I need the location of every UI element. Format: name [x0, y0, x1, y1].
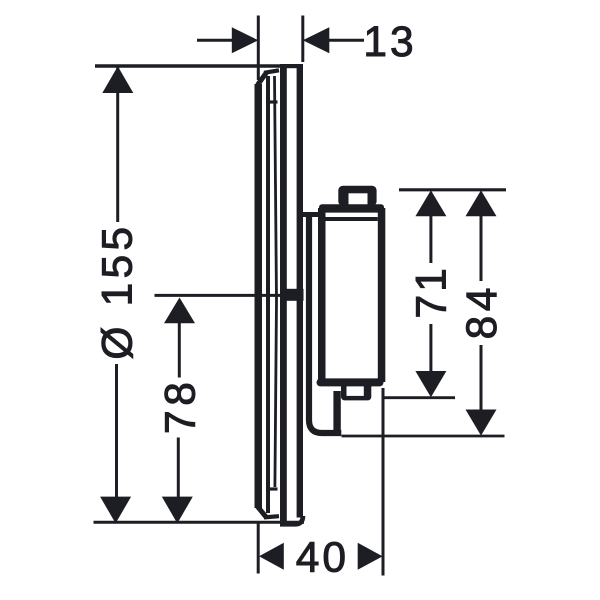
rosette top chamfer: [258, 73, 267, 86]
svg-text:71: 71: [408, 265, 455, 318]
dimension D155: dimension line: [116, 66, 119, 222]
dimension 78: top extension line: [155, 294, 281, 297]
svg-text:13: 13: [363, 19, 416, 66]
sleeve line and lower narrow box: [309, 212, 341, 433]
rosette inner bottom connector: [267, 487, 278, 490]
dimension 13: left extension line: [257, 16, 260, 81]
svg-text:40: 40: [296, 535, 349, 582]
wall plate slab bottom edge: [280, 516, 303, 524]
valve body bottom bar: [317, 378, 384, 386]
dimensions 71/84: shared top extension line: [399, 188, 506, 191]
dimension 71: down arrow: [415, 371, 446, 397]
wall plate slab left border: [280, 65, 287, 525]
dimension 40: right extension line: [382, 388, 385, 576]
valve body inner top line: [326, 217, 378, 221]
rosette bottom edge: [264, 516, 279, 517]
dimension 40: left extension line: [257, 524, 260, 574]
dimension 71: dimension line: [429, 215, 432, 263]
dimension 13: right arrow: [329, 39, 364, 42]
valve body top flange: [319, 204, 384, 212]
svg-text:84: 84: [459, 283, 506, 339]
slab mid crossbar: [281, 289, 304, 301]
dimension 13: right extension line: [301, 16, 304, 63]
rosette cone tilted line: [275, 76, 277, 487]
dimension 78: dimension line: [178, 322, 181, 378]
valve body right border: [378, 208, 386, 382]
dimension 78: up arrow: [164, 298, 195, 324]
dimension 84: dimension line: [480, 215, 483, 281]
valve body left border: [318, 208, 326, 382]
narrow box right edge: [333, 391, 340, 431]
plate-to-body connector: [303, 212, 319, 217]
dimension 40: right arrow: [358, 543, 383, 570]
dimension 84: down arrow: [466, 410, 497, 436]
dimension 71: bottom extension line: [384, 396, 455, 399]
dimension D155: top extension line: [95, 64, 303, 67]
escutcheon rosette front face bar: [255, 84, 263, 508]
rosette bottom chamfer: [258, 507, 267, 518]
dimension D155: down arrow: [100, 497, 131, 524]
wall plate slab top edge: [280, 64, 303, 68]
top cap (stop button): [338, 186, 376, 206]
svg-text:Ø 155: Ø 155: [95, 223, 142, 360]
bottom cap (stop button): [341, 382, 371, 400]
dimension 40: left arrow: [259, 543, 284, 570]
dimension D155: up arrow: [102, 66, 133, 93]
dimension 13: left arrow: [197, 39, 232, 42]
dimension D155: bottom extension line: [94, 521, 305, 524]
dimension 84: up arrow: [466, 190, 497, 216]
rosette inner top connector: [267, 100, 278, 103]
dimension 78: down arrow: [162, 497, 193, 524]
rosette inner vertical line: [266, 76, 270, 513]
dimension 84: bottom extension line: [342, 435, 505, 438]
dimension 71: up arrow: [415, 190, 446, 216]
svg-text:78: 78: [157, 378, 204, 434]
rosette top edge: [264, 70, 279, 73]
wall plate slab right border: [297, 65, 303, 518]
